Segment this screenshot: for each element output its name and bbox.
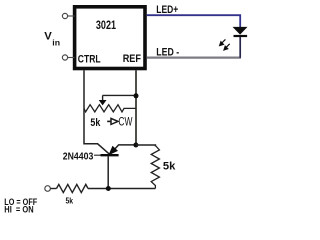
terminal pin circle CTRL input — [62, 55, 67, 60]
svg-text:REF: REF — [123, 53, 142, 65]
svg-text:3021: 3021 — [96, 18, 116, 32]
LED light arrow 1 — [220, 39, 226, 45]
wire CTRL-side vertical + collector lead — [84, 70, 110, 154]
base bar — [101, 154, 119, 156]
potentiometer wiper arrow — [102, 95, 104, 100]
wire terminal to R3 — [51, 188, 57, 190]
leader line to base bar — [94, 154, 101, 156]
op-amp U1 : IC box 3021 — [75, 7, 145, 69]
potentiometer R1 5k zigzag — [84, 105, 136, 112]
junction dot base/rail — [106, 186, 111, 191]
wire node to R2 top — [136, 145, 156, 146]
junction dot wiper/REF — [134, 93, 139, 98]
LED D1 triangle — [233, 27, 248, 35]
svg-text:5k: 5k — [163, 161, 176, 173]
wire LED+ (blue) — [147, 15, 240, 27]
svg-text:in: in — [52, 37, 60, 47]
wire stub top input — [68, 15, 75, 17]
junction dot REF/emitter/R2 — [133, 143, 138, 148]
resistor R3 5k horizontal zigzag — [57, 184, 89, 192]
svg-text:HI = ON: HI = ON — [4, 204, 33, 214]
wire stub CTRL input — [68, 57, 75, 59]
resistor R2 5k vertical zigzag — [151, 146, 159, 189]
emitter lead with arrow — [110, 145, 136, 154]
svg-text:5k: 5k — [66, 196, 74, 206]
svg-text:CW: CW — [118, 115, 132, 129]
terminal circle control input — [45, 186, 51, 192]
wire REF vertical — [135, 70, 137, 145]
svg-text:2N4403: 2N4403 — [63, 152, 94, 163]
LED D1 cathode bar — [234, 35, 248, 37]
wire wiper to REF node — [103, 94, 136, 96]
svg-text:V: V — [44, 31, 52, 43]
svg-text:LED+: LED+ — [156, 4, 178, 16]
LED light arrow 2 — [224, 44, 230, 50]
wire bottom rail — [88, 188, 155, 190]
svg-text:5k: 5k — [90, 117, 100, 129]
base lead down — [107, 156, 109, 188]
CW arrow symbol — [107, 120, 111, 122]
terminal pin circle top input — [62, 13, 67, 18]
wire LED- (gray) — [147, 56, 241, 58]
svg-text:CTRL: CTRL — [78, 54, 101, 66]
wire LED cathode drop — [239, 37, 241, 58]
